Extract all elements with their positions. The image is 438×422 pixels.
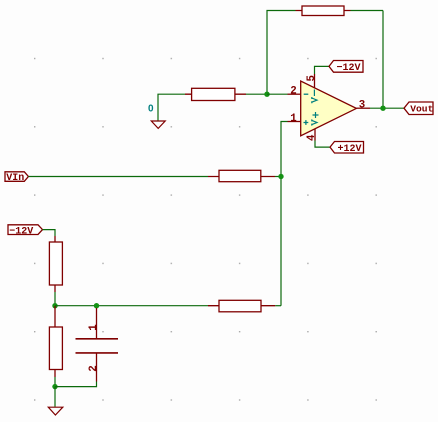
svg-text:+12V: +12V xyxy=(338,144,362,155)
op-amp U1 pin 5 number xyxy=(306,75,318,81)
junction ground row xyxy=(52,384,57,389)
node 0 label xyxy=(148,103,154,114)
ground GND1 xyxy=(151,121,165,128)
op-amp U1 pin 2 lead xyxy=(288,93,301,95)
junction output node xyxy=(380,106,385,111)
svg-text:Vout: Vout xyxy=(410,104,433,115)
op-amp U1 pin 1 lead xyxy=(288,121,301,123)
capacitor C1 xyxy=(76,308,119,382)
wire VIn to R3 xyxy=(28,176,208,178)
capacitor C1 pin 1 number xyxy=(88,324,100,331)
wire ground row to capacitor xyxy=(55,382,97,387)
power flag -12V (op-amp top) xyxy=(329,61,363,75)
wire pin 3 to Vout xyxy=(370,107,404,109)
svg-text:4: 4 xyxy=(306,134,318,141)
resistor R3 (Vin series) xyxy=(208,170,275,181)
junction Vin node xyxy=(278,174,283,179)
wire feedback right vertical xyxy=(351,11,384,109)
ground GND2 xyxy=(48,407,63,415)
junction inverting node xyxy=(264,92,269,97)
wire -12V flag to R5 xyxy=(43,230,56,236)
wire junction to ground GND2 xyxy=(54,387,56,407)
capacitor C1 pin 2 number xyxy=(88,365,100,371)
wire pin 1 down to third row xyxy=(281,122,288,306)
op-amp U1 V- marker xyxy=(312,90,317,104)
op-amp U1 pin 1 number xyxy=(290,113,297,125)
resistor R1 (feedback) xyxy=(296,6,351,16)
svg-text:3: 3 xyxy=(359,99,365,111)
svg-text:2: 2 xyxy=(290,85,296,97)
wire R2 left to ground xyxy=(158,94,185,120)
wire pin 4 to +12V flag xyxy=(315,141,330,148)
svg-text:2: 2 xyxy=(88,365,100,371)
op-amp U1 pin 5 lead xyxy=(314,74,316,88)
svg-text:1: 1 xyxy=(290,113,297,125)
op-amp U1 V+ marker xyxy=(312,112,319,126)
op-amp U1 pin 4 number xyxy=(306,134,318,141)
svg-text:−12V: −12V xyxy=(337,63,361,74)
op-amp U1 non-inverting input marker xyxy=(304,120,309,125)
op-amp U1 pin 2 number xyxy=(290,85,296,97)
wire R2 right to junction xyxy=(246,93,267,95)
junction divider node cap xyxy=(94,303,99,308)
svg-text:VIn: VIn xyxy=(6,173,24,184)
svg-text:1: 1 xyxy=(88,324,100,331)
svg-text:−12V: −12V xyxy=(9,226,33,237)
wire pin 5 to -12V flag xyxy=(315,66,330,74)
wire feedback left vertical xyxy=(267,11,296,95)
resistor R2 (inverting input) xyxy=(185,88,246,100)
svg-text:5: 5 xyxy=(306,75,318,81)
resistor R6 (lower vertical) xyxy=(49,306,62,377)
resistor R5 (upper vertical) xyxy=(49,236,62,292)
op-amp U1 pin 4 lead xyxy=(314,129,316,141)
op-amp U1 xyxy=(301,81,357,136)
wire R3 to vertical net xyxy=(275,176,281,178)
wire divider row xyxy=(55,305,208,307)
wire junction to pin 2 xyxy=(267,93,288,95)
junction divider node left xyxy=(52,303,57,308)
wire R4 right to vertical net xyxy=(275,305,281,307)
op-amp U1 inverting input marker xyxy=(304,93,309,95)
power flag +12V (op-amp bottom) xyxy=(330,142,364,155)
resistor R4 (third row series) xyxy=(208,300,275,312)
wire R5 bottom to junction xyxy=(54,292,56,306)
op-amp U1 pin 3 lead xyxy=(356,107,370,109)
net label Vout xyxy=(404,102,433,115)
wire R6 bottom to ground row xyxy=(54,377,56,387)
power flag -12V (left) xyxy=(8,225,43,238)
op-amp U1 pin 3 number xyxy=(359,99,365,111)
svg-text:0: 0 xyxy=(148,103,154,114)
net label VIn xyxy=(5,172,28,184)
